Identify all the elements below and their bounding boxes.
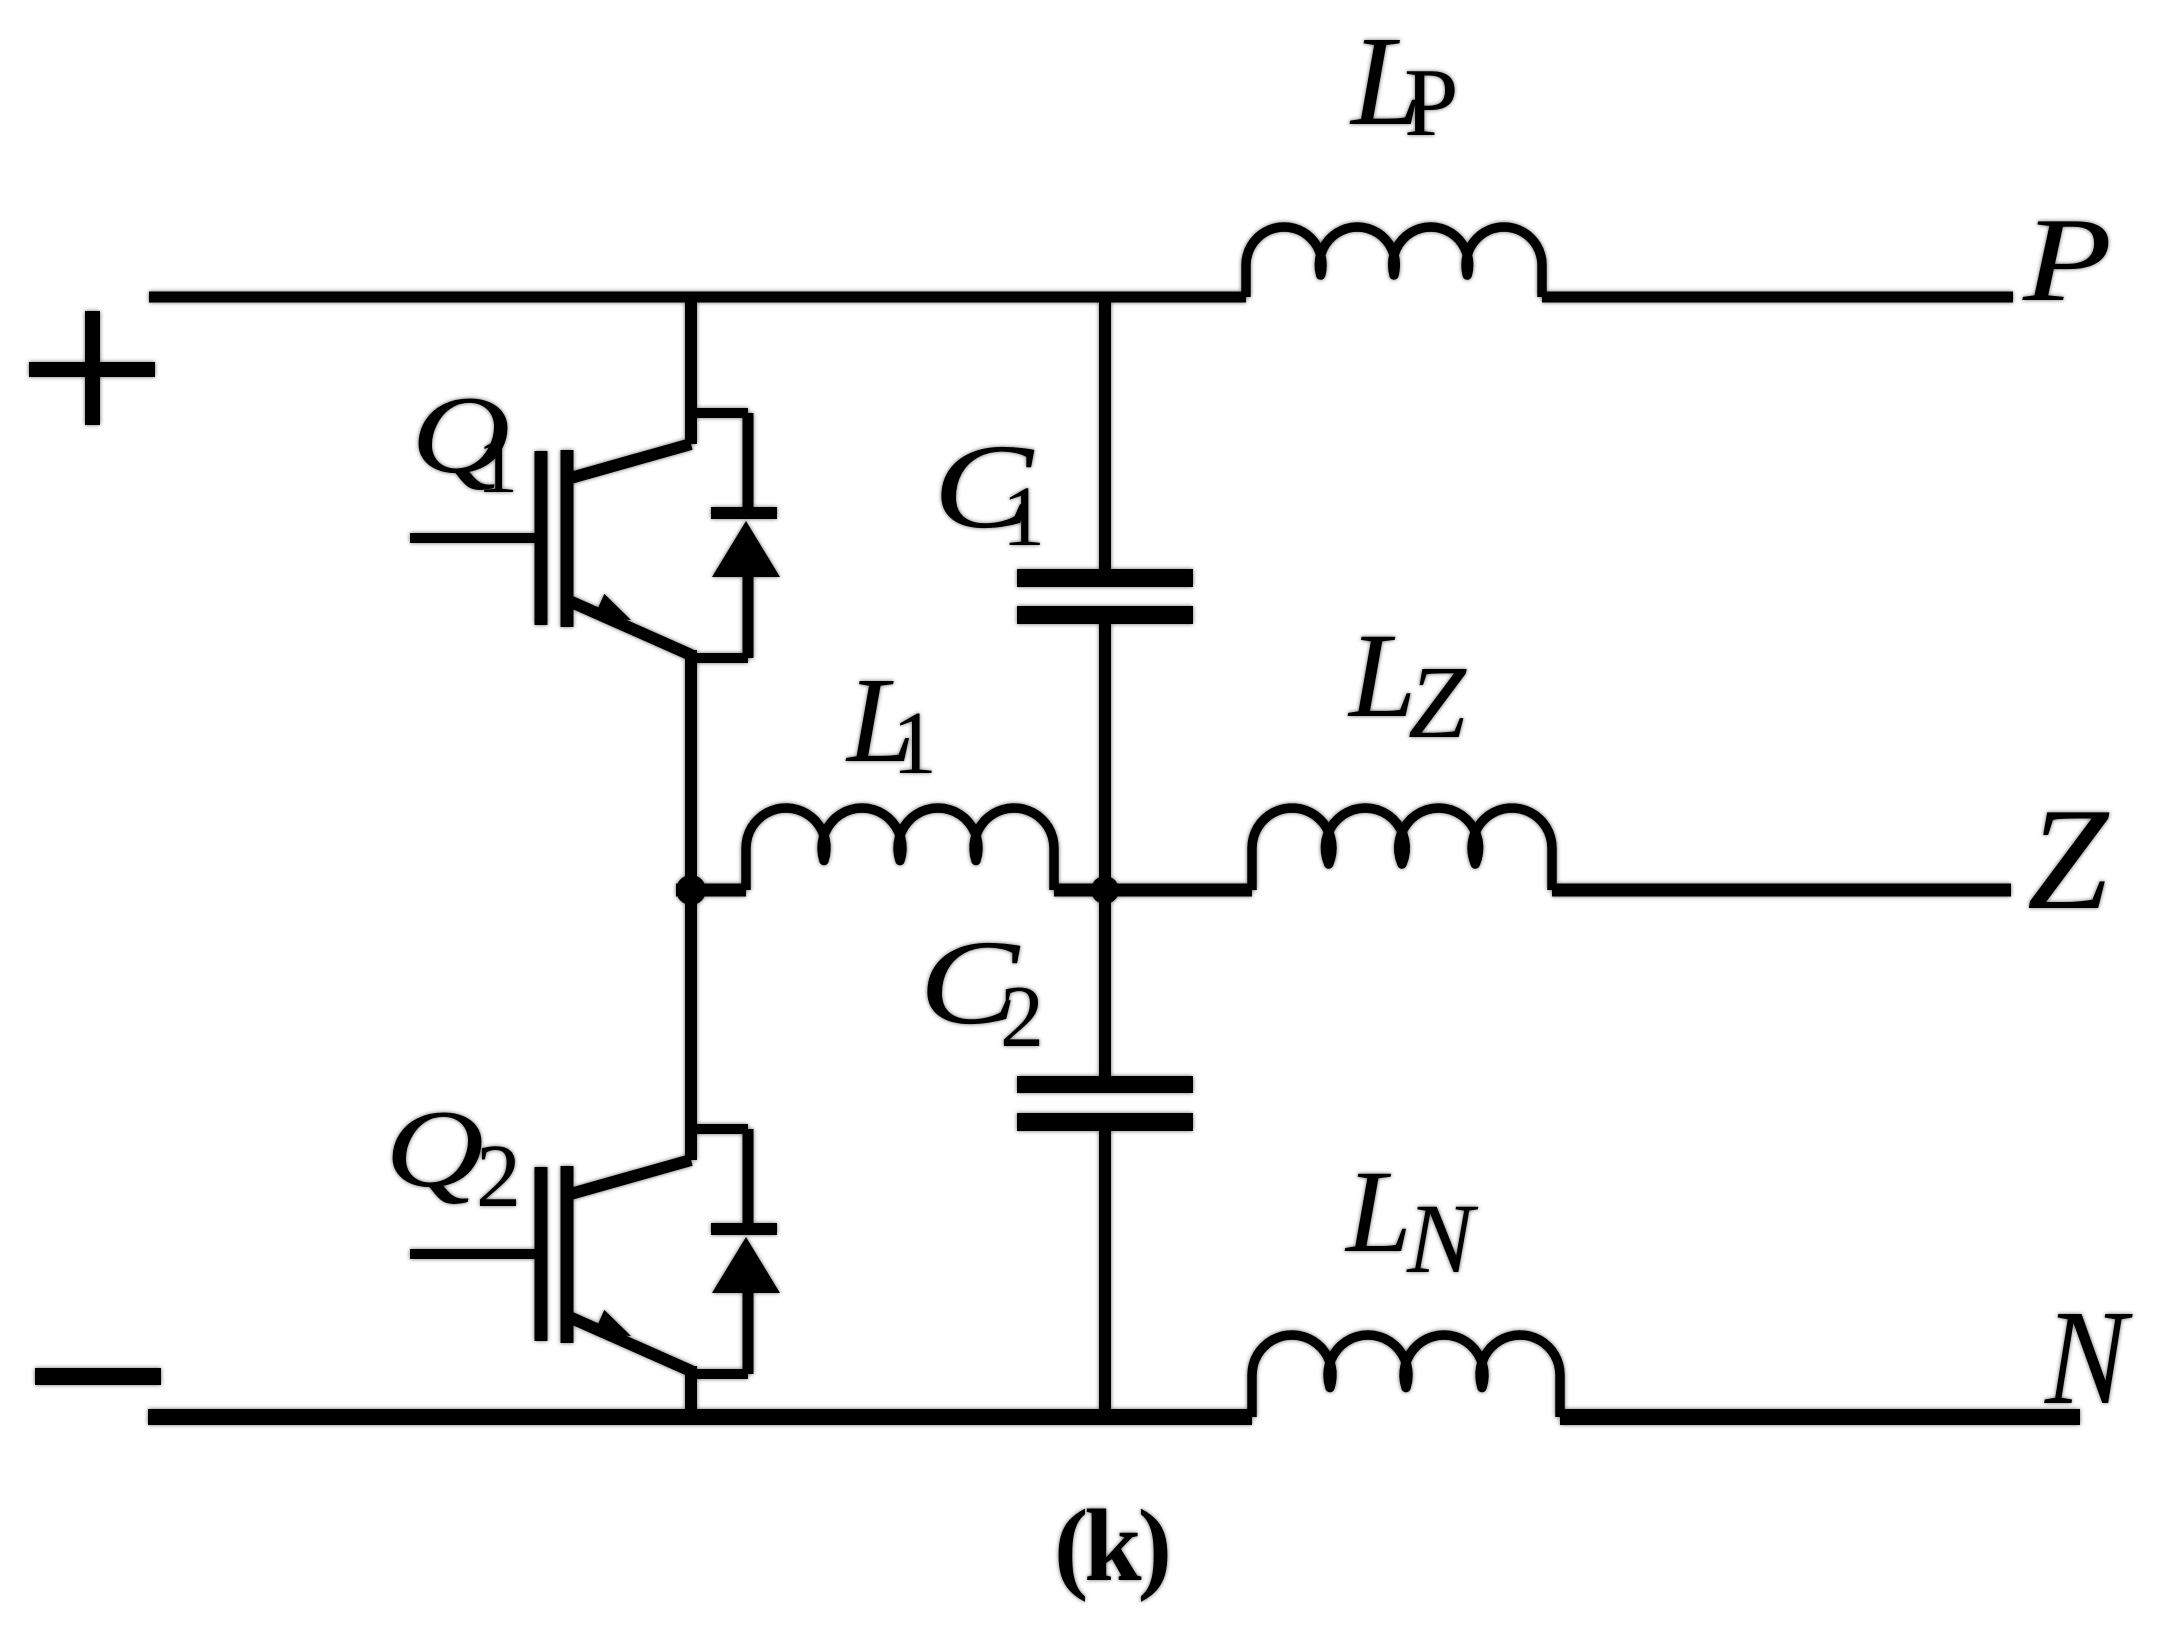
wire Q1 collector drop from top rail [685, 297, 697, 444]
svg-text:1: 1 [892, 694, 937, 793]
svg-text:2: 2 [1000, 969, 1044, 1066]
capacitor C1 [1017, 569, 1193, 624]
wire node to L1 [676, 884, 746, 897]
inductor L1 [746, 808, 1054, 890]
svg-text:P: P [1404, 49, 1459, 157]
svg-text:P: P [2022, 193, 2112, 326]
svg-text:L: L [1347, 609, 1416, 743]
svg-text:L: L [1344, 1146, 1412, 1277]
svg-text:2: 2 [476, 1127, 521, 1226]
transistor Q2 (IGBT) [410, 1160, 691, 1371]
svg-text:1: 1 [477, 419, 518, 510]
wire C2 branch from node [1099, 890, 1111, 1076]
inductor LN [1252, 1335, 1560, 1417]
minus terminal symbol [35, 1368, 161, 1385]
wire Q2 emitter to DC- rail [685, 1366, 697, 1417]
wire Q1 emitter down to node Z row [685, 650, 697, 890]
svg-text:Q: Q [385, 1088, 484, 1211]
capacitor C2 [1017, 1076, 1193, 1131]
svg-text:N: N [2044, 1283, 2133, 1433]
svg-text:1: 1 [1002, 468, 1045, 564]
wire C1 branch from top rail [1099, 297, 1111, 569]
transistor Q1 (IGBT) [410, 444, 691, 655]
svg-text:Z: Z [2027, 778, 2110, 940]
svg-text:(k): (k) [1054, 1489, 1168, 1603]
node dot at Q leg / L1 junction [676, 875, 706, 905]
inductor LP [1246, 227, 1542, 297]
svg-text:Z: Z [1408, 645, 1467, 760]
wire L1 to center node [1054, 884, 1105, 897]
wire C1 bottom to node [1099, 624, 1111, 890]
node dot at C branch / Z row junction [1091, 876, 1119, 904]
diode D2 (antiparallel with Q2) [691, 1129, 780, 1374]
wire bottom DC- rail left segment [148, 1409, 1252, 1425]
svg-text:N: N [1406, 1183, 1479, 1294]
diode D1 (antiparallel with Q1) [691, 413, 780, 658]
wire LZ to Z terminal [1552, 884, 2011, 897]
wire top DC+ rail right segment to P [1542, 292, 2013, 303]
inductor LZ [1252, 808, 1552, 890]
wire Q2 collector drop from node [685, 890, 697, 1160]
plus terminal symbol [29, 311, 155, 425]
wire top DC+ rail left segment [149, 292, 1246, 303]
wire bottom DC- rail right segment to N [1560, 1409, 2080, 1425]
wire C2 bottom to DC- rail [1099, 1131, 1111, 1417]
wire node to LZ [1105, 884, 1252, 897]
